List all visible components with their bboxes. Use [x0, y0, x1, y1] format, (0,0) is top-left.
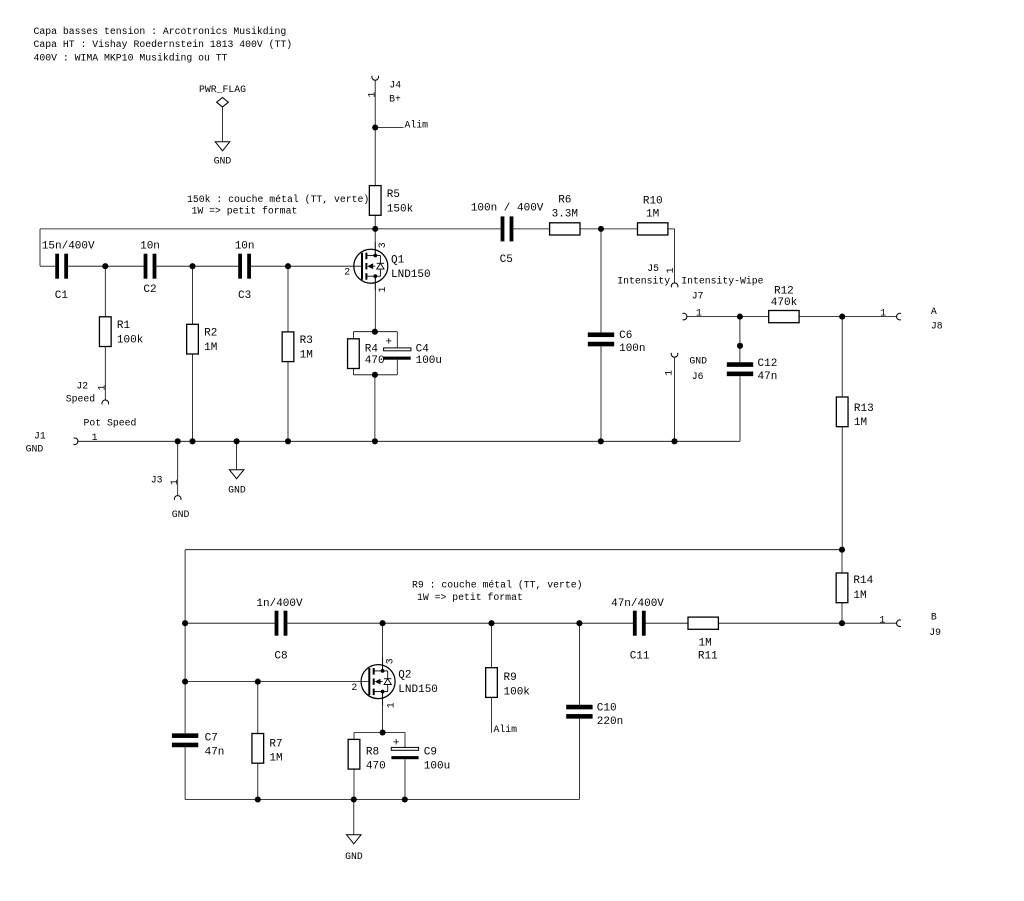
svg-text:GND: GND: [228, 485, 246, 496]
wire to C4 top: [396, 332, 398, 348]
resistor R8: [348, 739, 360, 769]
svg-text:J4: J4: [389, 80, 401, 91]
svg-text:47n/400V: 47n/400V: [611, 598, 664, 610]
junction left edge / gate row: [182, 679, 188, 685]
resistor R14: [836, 573, 848, 603]
capacitor C5: [501, 216, 505, 241]
wire node to R1: [104, 266, 106, 317]
svg-text:C1: C1: [55, 290, 69, 302]
svg-text:1M: 1M: [300, 350, 313, 362]
svg-text:GND: GND: [172, 509, 190, 520]
svg-text:2: 2: [351, 682, 357, 693]
svg-text:1M: 1M: [269, 753, 282, 765]
svg-text:R3: R3: [300, 335, 313, 347]
wire R14 to B row: [841, 603, 843, 624]
svg-text:C5: C5: [500, 254, 513, 266]
svg-text:LND150: LND150: [398, 684, 438, 696]
resistor R7: [252, 734, 264, 764]
svg-text:J8: J8: [931, 320, 943, 331]
svg-text:Q1: Q1: [391, 254, 405, 266]
svg-text:C8: C8: [274, 650, 287, 662]
svg-text:100u: 100u: [416, 355, 442, 367]
connector J4 pin (B+): [372, 76, 379, 80]
wire R1 to J2: [104, 347, 106, 401]
resistor R1: [99, 317, 111, 347]
wire C5 to R6: [513, 228, 549, 230]
wire R8C9 top rail: [354, 732, 405, 734]
wire C10 to lower bus corner: [578, 719, 580, 800]
wire lower-left edge lower: [184, 747, 186, 799]
svg-text:1: 1: [665, 267, 676, 273]
wire gate row to R7: [257, 682, 259, 734]
wire bottom bus: [78, 440, 740, 442]
resistor R13: [836, 397, 848, 427]
resistor R4: [348, 339, 360, 369]
wire PWR_FLAG to GND: [222, 107, 224, 142]
svg-text:C10: C10: [597, 703, 617, 715]
svg-text:1M: 1M: [854, 417, 867, 429]
junction row / Q2 drain: [380, 620, 386, 626]
svg-text:J7: J7: [692, 291, 704, 302]
junction at Alim tap: [372, 124, 378, 130]
connector J8 pin (A): [897, 313, 901, 320]
resistor R10: [638, 223, 668, 235]
svg-text:Intensity: Intensity: [617, 276, 670, 287]
wire bus to ground: [236, 441, 238, 469]
svg-text:1W => petit format: 1W => petit format: [417, 592, 523, 603]
svg-text:C11: C11: [630, 650, 650, 662]
wire corner down to J5: [674, 229, 676, 283]
capacitor C10: [566, 705, 592, 710]
svg-text:47n: 47n: [758, 371, 778, 383]
connector J9 pin (B): [897, 620, 901, 627]
svg-text:R13: R13: [854, 403, 874, 415]
svg-text:+: +: [386, 336, 393, 348]
svg-text:R14: R14: [853, 575, 873, 587]
svg-text:1M: 1M: [853, 590, 866, 602]
wire J4 to R5: [374, 80, 376, 186]
capacitor C2: [144, 254, 148, 279]
svg-text:C2: C2: [143, 284, 156, 296]
svg-text:R1: R1: [117, 320, 131, 332]
svg-text:+: +: [393, 738, 400, 750]
svg-text:R9 : couche métal (TT, verte): R9 : couche métal (TT, verte): [412, 579, 583, 590]
svg-text:15n/400V: 15n/400V: [42, 240, 95, 252]
svg-text:GND: GND: [214, 156, 232, 167]
svg-text:J3: J3: [151, 474, 163, 485]
wire R12 to J8: [799, 316, 897, 318]
capacitor C11: [633, 611, 637, 636]
junction left edge / C8 row: [182, 620, 188, 626]
wire R8 to lower bus: [353, 769, 355, 799]
wire C1 to C2: [68, 265, 144, 267]
junction node C1/R1: [102, 263, 108, 269]
junction node C3/R3: [285, 263, 291, 269]
svg-text:1: 1: [377, 287, 388, 293]
svg-text:R2: R2: [204, 328, 217, 340]
svg-text:Alim: Alim: [405, 119, 429, 130]
svg-text:100u: 100u: [424, 760, 450, 772]
wire C9 to lower bus: [404, 759, 406, 799]
svg-text:PWR_FLAG: PWR_FLAG: [199, 84, 246, 95]
svg-text:J5: J5: [647, 263, 659, 274]
wire to C9 top: [404, 733, 406, 748]
svg-text:R11: R11: [698, 650, 718, 662]
svg-text:1: 1: [879, 615, 885, 626]
junction above C12: [737, 343, 743, 349]
svg-text:C6: C6: [619, 330, 632, 342]
connector J7 pin (Intensity-Wipe): [683, 313, 687, 320]
junction top bus / C6: [598, 226, 604, 232]
resistor R2: [187, 324, 199, 354]
junction node C2/R2: [189, 263, 195, 269]
junction R4C4 bottom: [372, 372, 378, 378]
svg-text:100k: 100k: [117, 335, 144, 347]
svg-text:2: 2: [344, 267, 350, 278]
svg-text:R9: R9: [504, 672, 517, 684]
junction row / R9: [488, 620, 494, 626]
wire Q1 source down: [374, 276, 376, 332]
wire node A to R13: [841, 317, 843, 397]
junction bus / C6: [598, 438, 604, 444]
svg-text:R5: R5: [387, 189, 400, 201]
svg-text:J2: J2: [76, 380, 88, 391]
capacitor C4 (electrolytic): [384, 348, 411, 351]
wire Q2 source down: [382, 692, 384, 733]
svg-text:100k: 100k: [504, 687, 531, 699]
svg-text:150k: 150k: [387, 203, 414, 215]
svg-text:3.3M: 3.3M: [552, 209, 578, 221]
wire bus left corner down: [39, 229, 41, 266]
capacitor C1: [55, 254, 59, 279]
wire C6 to bottom bus: [600, 346, 602, 441]
wire R4C4 top rail: [353, 331, 397, 333]
svg-text:470k: 470k: [771, 297, 798, 309]
wire J7 to R12: [687, 316, 769, 318]
transistor Q2 (LND150): [361, 658, 395, 706]
svg-text:J1: J1: [34, 431, 46, 442]
capacitor C12: [727, 362, 753, 367]
wire R10 to corner: [668, 228, 675, 230]
svg-text:C9: C9: [424, 747, 437, 759]
svg-text:C7: C7: [205, 732, 218, 744]
resistor R12: [769, 311, 799, 323]
wire C11 to R11: [645, 622, 688, 624]
svg-text:Pot Speed: Pot Speed: [84, 418, 137, 429]
svg-text:LND150: LND150: [391, 269, 431, 281]
wire R9 to Alim: [491, 697, 493, 732]
wire mid rail: [185, 549, 842, 551]
svg-text:C3: C3: [238, 290, 251, 302]
svg-text:1M: 1M: [698, 638, 711, 650]
svg-text:400V : WIMA MKP10 Musikding ou: 400V : WIMA MKP10 Musikding ou TT: [34, 52, 228, 63]
wire bus to J3: [177, 441, 179, 496]
svg-text:Capa HT : Vishay Roedernstein: Capa HT : Vishay Roedernstein 1813 400V …: [34, 39, 293, 50]
svg-text:J6: J6: [692, 371, 704, 382]
wire top bus segment A: [40, 228, 501, 230]
svg-text:B+: B+: [389, 94, 401, 105]
wire R11 to J9: [718, 622, 897, 624]
power flag PWR_FLAG diamond: [217, 98, 229, 107]
wire row to C10: [578, 623, 580, 705]
junction R5 / top bus: [372, 226, 378, 232]
wire node to R3: [287, 266, 289, 332]
capacitor C9 (electrolytic): [391, 747, 418, 750]
wire R4C4 bottom rail: [353, 374, 397, 376]
ground symbol (second stage): [347, 835, 362, 844]
junction node A / R13: [839, 314, 845, 320]
wire C2 to C3: [156, 265, 238, 267]
wire C8 row left: [185, 622, 275, 624]
transistor Q1 (LND150): [354, 242, 388, 290]
svg-text:Alim: Alim: [494, 724, 518, 735]
wire gate row: [185, 681, 369, 683]
svg-text:1W => petit format: 1W => petit format: [192, 205, 298, 216]
connector J1 pin (GND): [74, 438, 78, 445]
svg-text:GND: GND: [689, 356, 707, 367]
wire C8 to C11: [287, 622, 633, 624]
wire row to Q2 drain: [382, 623, 384, 671]
svg-text:1: 1: [664, 370, 675, 376]
wire R7 to lower bus: [257, 763, 259, 799]
svg-text:3: 3: [384, 658, 395, 664]
connector J6 pin (GND): [671, 353, 678, 357]
wire bus to C6: [600, 229, 602, 333]
svg-text:A: A: [931, 306, 937, 317]
wire R6 to R10: [580, 228, 638, 230]
junction lower bus / R8 and ground: [351, 796, 357, 802]
wire R4 bottom stub: [352, 369, 354, 375]
ground symbol (first stage): [229, 470, 244, 479]
capacitor C6: [588, 332, 614, 337]
connector J3 pin (GND): [174, 496, 181, 500]
svg-text:C12: C12: [758, 358, 778, 370]
ground symbol (power GND under PWR_FLAG): [215, 142, 230, 151]
svg-text:GND: GND: [345, 851, 363, 862]
connector J5 pin: [671, 283, 678, 287]
svg-text:1n/400V: 1n/400V: [256, 598, 303, 610]
wire to R4 top: [352, 332, 354, 339]
wire C3 to Q1 gate: [251, 265, 362, 267]
svg-text:J9: J9: [929, 627, 941, 638]
junction bus / J6: [671, 438, 677, 444]
resistor R11: [688, 617, 718, 629]
junction bus / R4C4: [372, 438, 378, 444]
wire lower bus: [185, 799, 579, 801]
svg-text:1: 1: [169, 479, 180, 485]
wire row to R9: [491, 623, 493, 668]
capacitor C7: [172, 733, 198, 738]
svg-text:1: 1: [366, 92, 377, 98]
svg-text:470: 470: [366, 760, 386, 772]
junction lower bus / R7: [255, 796, 261, 802]
resistor R5: [369, 186, 381, 216]
svg-text:1M: 1M: [204, 342, 217, 354]
wire lower bus to ground: [353, 800, 355, 835]
svg-text:Q2: Q2: [398, 670, 411, 682]
wire R4C4 to bottom bus: [374, 375, 376, 442]
junction bus / R3: [285, 438, 291, 444]
junction bus / GND symbol: [234, 438, 240, 444]
junction bus / R2: [189, 438, 195, 444]
svg-text:10n: 10n: [235, 240, 255, 252]
wire R3 to bottom bus: [287, 362, 289, 442]
svg-text:Capa basses tension : Arcotron: Capa basses tension : Arcotronics Musikd…: [34, 26, 287, 37]
svg-text:150k : couche métal (TT, verte: 150k : couche métal (TT, verte): [187, 194, 369, 205]
junction gate row / R7: [255, 679, 261, 685]
junction B row / R14: [839, 620, 845, 626]
wire C4 bottom stub: [396, 360, 398, 375]
junction node C12 top: [737, 314, 743, 320]
svg-text:B: B: [931, 611, 937, 622]
wire corner to C1: [40, 265, 55, 267]
connector J2 pin (Speed): [102, 400, 109, 404]
svg-text:R8: R8: [366, 747, 379, 759]
svg-text:Speed: Speed: [66, 394, 96, 405]
svg-text:1: 1: [97, 385, 108, 391]
wire node to R2: [192, 266, 194, 324]
svg-text:100n / 400V: 100n / 400V: [471, 202, 544, 214]
svg-text:C4: C4: [416, 344, 430, 356]
wire R5 to top bus / Q1 drain: [374, 215, 376, 256]
wire rail to R14: [841, 550, 843, 573]
capacitor C3: [238, 254, 242, 279]
junction row / C10: [576, 620, 582, 626]
wire C12 to bus corner: [739, 376, 741, 441]
svg-text:3: 3: [377, 242, 388, 248]
wire R13 to mid rail: [841, 427, 843, 550]
svg-text:GND: GND: [26, 443, 44, 454]
junction R4C4 top: [372, 329, 378, 335]
svg-text:470: 470: [365, 355, 385, 367]
wire Alim stub: [375, 127, 403, 129]
svg-text:1: 1: [385, 702, 396, 708]
svg-text:10n: 10n: [140, 240, 160, 252]
capacitor C8: [275, 611, 279, 636]
svg-text:R4: R4: [365, 343, 379, 355]
svg-text:220n: 220n: [597, 716, 623, 728]
svg-text:1: 1: [880, 308, 886, 319]
svg-text:R12: R12: [774, 285, 794, 297]
resistor R6: [550, 223, 580, 235]
resistor R3: [282, 332, 294, 362]
wire to R8 top: [353, 733, 355, 740]
junction lower bus / C9: [402, 796, 408, 802]
resistor R9: [486, 668, 498, 698]
svg-text:Intensity-Wipe: Intensity-Wipe: [681, 276, 763, 287]
junction bus / J3: [175, 438, 181, 444]
svg-text:100n: 100n: [619, 343, 645, 355]
junction R8C9 top: [380, 729, 386, 735]
junction mid rail / R13: [839, 547, 845, 553]
wire lower-left edge upper: [184, 550, 186, 734]
wire node to C12: [739, 317, 741, 363]
svg-text:R7: R7: [269, 738, 282, 750]
wire J6 to bus: [674, 357, 676, 441]
svg-text:1M: 1M: [646, 209, 659, 221]
svg-text:47n: 47n: [205, 746, 225, 758]
wire R2 to bottom bus: [192, 354, 194, 441]
svg-text:R6: R6: [558, 195, 571, 207]
svg-text:R10: R10: [643, 195, 663, 207]
